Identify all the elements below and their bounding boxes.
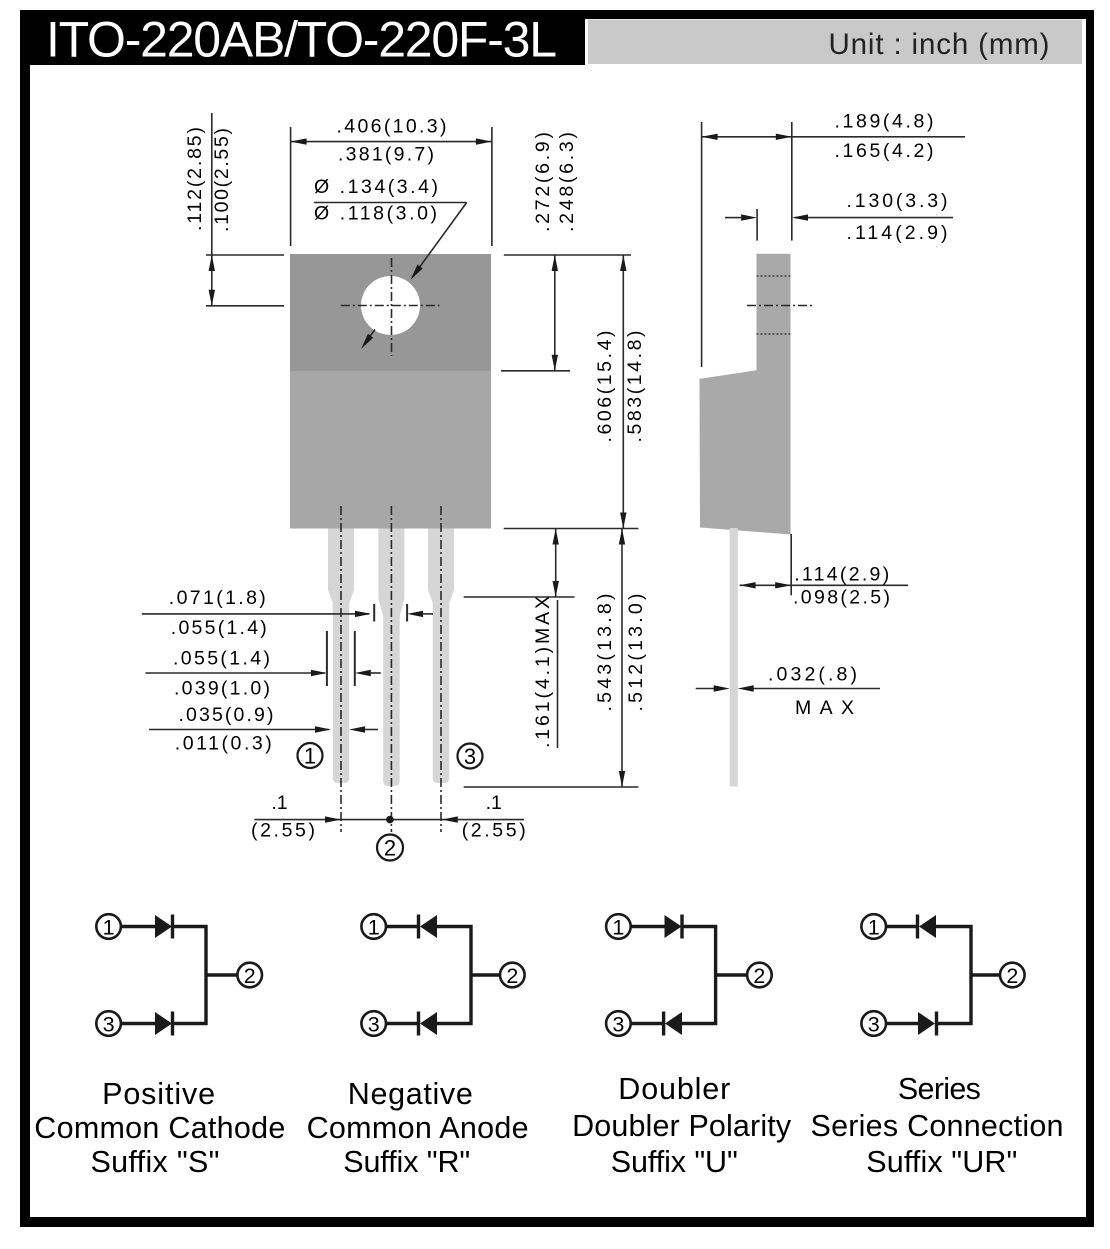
svg-text:.032(.8): .032(.8) xyxy=(768,664,857,686)
svg-text:Suffix "U": Suffix "U" xyxy=(611,1145,738,1179)
dimension .114(2.9)/.098(2.5) pin to front face xyxy=(740,534,908,595)
wire D7 to node xyxy=(936,925,973,928)
lead pitch dimension .1(2.55) both sides xyxy=(254,819,524,821)
svg-text:MAX: MAX xyxy=(795,697,854,719)
wire node1 to diode D3 xyxy=(385,925,420,928)
pin 1 lead (front view) xyxy=(328,529,354,784)
svg-text:Unit : inch (mm): Unit : inch (mm) xyxy=(829,28,1050,61)
svg-text:1: 1 xyxy=(868,916,880,940)
pin 3 lead (front view) xyxy=(428,529,454,784)
svg-text:.100(2.55): .100(2.55) xyxy=(211,128,233,232)
svg-text:3: 3 xyxy=(464,744,476,769)
wire node3 to diode D4 xyxy=(385,1022,420,1025)
dimension .189(4.8)/.165(4.2) overall depth xyxy=(702,122,965,367)
pin 1 centerline xyxy=(340,506,342,832)
svg-text:.189(4.8): .189(4.8) xyxy=(835,111,934,133)
diode D7 (cathode left) xyxy=(916,915,919,939)
unit box xyxy=(588,20,1082,65)
mounting hole xyxy=(361,276,420,335)
common vertical wire xyxy=(469,925,472,1025)
diode D8 (anode left) xyxy=(918,1012,935,1035)
pin 3 centerline xyxy=(440,506,442,832)
dimension .130(3.3)/.114(2.9) tab thickness xyxy=(725,209,953,241)
svg-text:2: 2 xyxy=(244,964,256,988)
svg-text:Series: Series xyxy=(898,1072,981,1106)
package mounting tab (front view, upper darker part) xyxy=(290,254,491,371)
svg-text:(2.55): (2.55) xyxy=(462,820,526,842)
svg-text:ITO-220AB/TO-220F-3L: ITO-220AB/TO-220F-3L xyxy=(46,12,557,68)
wire node1 to diode D7 xyxy=(885,925,919,928)
svg-text:.1: .1 xyxy=(486,792,502,814)
svg-text:.114(2.9): .114(2.9) xyxy=(794,564,889,586)
hole centerline horizontal xyxy=(341,305,440,307)
pin number 1 xyxy=(298,743,323,769)
svg-text:Ø .118(3.0): Ø .118(3.0) xyxy=(314,203,437,225)
svg-text:Suffix "R": Suffix "R" xyxy=(343,1145,470,1179)
wire D8 to node xyxy=(937,1022,973,1025)
wire node3 to diode D8 xyxy=(885,1022,919,1025)
svg-text:Positive: Positive xyxy=(102,1077,215,1111)
node 2 terminal xyxy=(747,963,772,988)
svg-text:(2.55): (2.55) xyxy=(251,820,315,842)
diode D6 (cathode left) xyxy=(662,1012,665,1036)
svg-text:.055(1.4): .055(1.4) xyxy=(171,617,267,639)
wire D3 to node xyxy=(437,925,473,928)
node 2 terminal xyxy=(500,963,525,988)
wire to node 2 xyxy=(471,973,500,976)
svg-text:.114(2.9): .114(2.9) xyxy=(847,222,948,244)
node 2 terminal xyxy=(1000,963,1025,988)
node 3 terminal xyxy=(606,1011,631,1036)
side view body outline xyxy=(700,254,791,535)
wire D2 to node xyxy=(173,1022,208,1025)
wire D6 to node xyxy=(682,1022,718,1025)
schematic 3: doubler polarity xyxy=(572,914,792,1179)
wire D1 to node xyxy=(173,925,208,928)
title bar ITO-220AB/TO-220F-3L xyxy=(20,10,585,68)
node 1 terminal xyxy=(361,914,386,939)
svg-text:Suffix "UR": Suffix "UR" xyxy=(866,1145,1017,1179)
dimension .112(2.85)/.100(2.55) top edge to hole center xyxy=(206,113,284,306)
svg-text:3: 3 xyxy=(103,1013,115,1037)
wire to node 2 xyxy=(971,973,1000,976)
svg-text:Ø .134(3.4): Ø .134(3.4) xyxy=(314,176,438,198)
diode D1 (anode left) xyxy=(155,915,172,938)
wire to node 2 xyxy=(716,973,747,976)
node 1 terminal xyxy=(96,914,121,939)
svg-text:2: 2 xyxy=(384,836,396,861)
common vertical wire xyxy=(969,925,972,1025)
svg-text:1: 1 xyxy=(103,916,115,940)
svg-text:Common Anode: Common Anode xyxy=(307,1111,529,1145)
diode D2 (anode left) xyxy=(155,1012,172,1035)
svg-text:Common Cathode: Common Cathode xyxy=(34,1111,285,1145)
node 3 terminal xyxy=(96,1011,121,1036)
wire node3 to diode D6 xyxy=(630,1022,665,1025)
package body (front view, molded lower part) xyxy=(290,371,491,529)
svg-text:.248(6.3): .248(6.3) xyxy=(556,132,578,232)
svg-text:.071(1.8): .071(1.8) xyxy=(169,587,266,609)
svg-text:.011(0.3): .011(0.3) xyxy=(175,733,272,755)
svg-text:3: 3 xyxy=(612,1013,624,1037)
schematic 4: series connection xyxy=(811,914,1064,1179)
svg-text:1: 1 xyxy=(368,916,380,940)
dimension .543(13.8)/.512(13.0) lead length xyxy=(464,529,639,788)
wire node1 to diode D1 xyxy=(120,925,156,928)
svg-text:2: 2 xyxy=(506,964,518,988)
svg-text:Doubler: Doubler xyxy=(618,1072,730,1106)
svg-text:.112(2.85): .112(2.85) xyxy=(184,127,206,231)
dimension .032(.8)MAX pin thickness xyxy=(696,688,880,690)
svg-text:.055(1.4): .055(1.4) xyxy=(173,648,270,670)
svg-text:.165(4.2): .165(4.2) xyxy=(835,140,934,162)
svg-text:3: 3 xyxy=(368,1013,380,1037)
dimension .161(4.1)MAX shoulder length xyxy=(464,529,575,749)
hole centerline vertical xyxy=(391,258,393,356)
svg-text:2: 2 xyxy=(1006,964,1018,988)
hole leader far-side stub xyxy=(365,330,376,344)
schematic 2: negative common anode xyxy=(307,914,529,1179)
common vertical wire xyxy=(204,925,207,1025)
svg-text:.381(9.7): .381(9.7) xyxy=(338,144,434,166)
dimension .406(10.3)/.381(9.7) body width xyxy=(291,127,492,246)
node 1 terminal xyxy=(606,914,631,939)
diode D3 (cathode left) xyxy=(417,915,420,939)
wire to node 2 xyxy=(206,973,237,976)
svg-text:.1: .1 xyxy=(271,792,287,814)
svg-text:.035(0.9): .035(0.9) xyxy=(179,704,274,726)
wire D4 to node xyxy=(437,1022,473,1025)
dimension .606(15.4)/.583(14.8) body height xyxy=(504,255,639,529)
side view pin xyxy=(730,528,738,787)
node 3 terminal xyxy=(361,1011,386,1036)
tab dotted line lower xyxy=(757,333,791,335)
svg-text:.098(2.5): .098(2.5) xyxy=(793,587,890,609)
svg-text:.130(3.3): .130(3.3) xyxy=(847,190,948,212)
common vertical wire xyxy=(714,925,717,1025)
svg-text:.039(1.0): .039(1.0) xyxy=(174,678,270,700)
svg-text:3: 3 xyxy=(868,1013,880,1037)
wire node1 to diode D5 xyxy=(630,925,665,928)
svg-text:Series Connection: Series Connection xyxy=(811,1109,1064,1143)
pin 2 centerline xyxy=(390,506,392,832)
diode D4 (cathode left) xyxy=(417,1012,420,1036)
svg-text:2: 2 xyxy=(753,964,765,988)
pin 2 lead (front view) xyxy=(378,529,404,787)
node 3 terminal xyxy=(861,1011,886,1036)
svg-text:1: 1 xyxy=(304,744,316,769)
hole leader arrow xyxy=(412,203,467,278)
svg-text:Negative: Negative xyxy=(348,1077,473,1111)
svg-text:Doubler Polarity: Doubler Polarity xyxy=(572,1109,792,1143)
svg-text:1: 1 xyxy=(612,916,624,940)
svg-text:.272(6.9): .272(6.9) xyxy=(532,132,554,232)
pin number 2 xyxy=(377,835,403,861)
tab dotted line upper xyxy=(757,275,791,277)
diode D5 (anode left) xyxy=(665,915,682,938)
node 2 terminal xyxy=(237,963,262,988)
svg-text:.161(4.1)MAX: .161(4.1)MAX xyxy=(532,596,554,748)
tab centerline xyxy=(747,305,813,307)
svg-text:Suffix "S": Suffix "S" xyxy=(91,1145,220,1179)
dimension .272(6.9)/.248(6.3) tab height xyxy=(501,255,631,371)
wire node3 to diode D2 xyxy=(120,1022,156,1025)
wire D5 to node xyxy=(682,925,717,928)
node 1 terminal xyxy=(861,914,886,939)
schematic 1: positive common cathode xyxy=(34,914,285,1179)
pin number 3 xyxy=(458,744,483,770)
